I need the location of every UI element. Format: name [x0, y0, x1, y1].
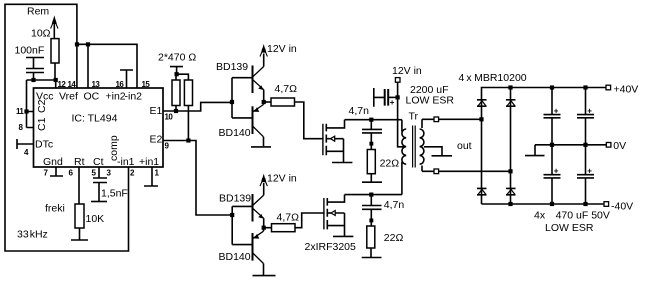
- svg-text:4,7n: 4,7n: [349, 105, 370, 117]
- svg-text:DTc: DTc: [35, 139, 53, 151]
- node Rem terminal arrow: [51, 15, 58, 38]
- wire Rt pin6: [78, 167, 80, 204]
- node Vcc pin junction: [54, 78, 58, 82]
- svg-text:out: out: [457, 140, 472, 152]
- capacitor 2200uF: [374, 88, 398, 107]
- svg-text:C1: C1: [36, 117, 48, 131]
- node 470 tie junction: [175, 72, 179, 76]
- svg-text:BD139: BD139: [216, 61, 248, 73]
- ground 100nF: [26, 58, 44, 69]
- wire 12V feed to center tap: [398, 82, 406, 147]
- svg-text:1,5nF: 1,5nF: [101, 188, 128, 200]
- svg-text:Rem: Rem: [27, 6, 49, 18]
- svg-text:2xIRF3205: 2xIRF3205: [305, 241, 357, 253]
- svg-text:E2: E2: [150, 134, 163, 146]
- diode D1 MBR10200: [477, 100, 487, 106]
- svg-text:100nF: 100nF: [15, 45, 45, 57]
- wire M1 drain rail: [345, 119, 402, 121]
- svg-text:+40V: +40V: [614, 84, 639, 96]
- capacitor 470uF B top: [577, 88, 594, 145]
- ground 1.5nF: [91, 201, 107, 203]
- transformer core: [413, 126, 416, 168]
- transistor Q1 BD139: [232, 54, 264, 103]
- wire Vref rail to OC and -in2: [77, 44, 137, 88]
- node diode2 top junction: [508, 85, 512, 89]
- svg-text:22Ω: 22Ω: [380, 158, 400, 170]
- transformer Tr primary: [402, 120, 406, 195]
- svg-text:12: 12: [58, 80, 67, 89]
- wire M2 drain rail: [345, 194, 402, 196]
- transformer Tr secondary: [420, 119, 424, 171]
- node cap B bottom junction: [583, 202, 587, 206]
- diode D4 MBR10200: [506, 188, 516, 204]
- wire driver1 out: [264, 101, 271, 103]
- node cap A top junction: [550, 85, 554, 89]
- svg-text:4,7Ω: 4,7Ω: [275, 83, 298, 95]
- ground 22R lower: [362, 248, 382, 258]
- svg-text:4,7n: 4,7n: [384, 199, 405, 211]
- transistor Q2 BD140: [232, 102, 264, 146]
- wire C1 C2 tie to Vcc: [27, 80, 34, 128]
- diode D3 MBR10200: [477, 188, 487, 204]
- node secondary bottom junction: [508, 169, 512, 173]
- terminal 0V square: [606, 143, 611, 148]
- svg-text:IC: TL494: IC: TL494: [72, 113, 118, 125]
- resistor 22R upper: [367, 150, 375, 174]
- node snubber1 tap: [369, 118, 373, 122]
- node pin11 junction: [24, 109, 28, 113]
- ground M2 source: [333, 235, 353, 237]
- wire driver2 out: [264, 227, 272, 229]
- resistor 22R lower: [367, 226, 375, 248]
- ground +in2: [120, 70, 133, 88]
- node cap A bottom junction: [550, 202, 554, 206]
- svg-text:Ct: Ct: [93, 156, 104, 168]
- svg-text:+in2: +in2: [106, 91, 126, 103]
- wire secondary center tap: [424, 147, 442, 156]
- capacitor 4.7n lower: [362, 195, 382, 226]
- node driver2 emitter junction: [262, 226, 266, 230]
- terminal 12V in square: [395, 78, 400, 83]
- resistor 4.7R lower: [272, 224, 296, 232]
- svg-text:4,7Ω: 4,7Ω: [277, 212, 300, 224]
- terminal secondary top square: [434, 117, 439, 122]
- svg-text:C2: C2: [36, 99, 48, 113]
- svg-text:Rt: Rt: [74, 156, 85, 168]
- node snubber2 tap: [369, 193, 373, 197]
- svg-text:22Ω: 22Ω: [384, 232, 404, 244]
- svg-text:16: 16: [116, 80, 125, 89]
- ground Gnd pin7: [50, 167, 63, 176]
- wire D1 anode leg: [481, 100, 483, 189]
- svg-text:11: 11: [16, 107, 24, 116]
- wire secondary top to bridge: [422, 118, 482, 120]
- svg-text:33kHz: 33kHz: [17, 229, 48, 241]
- ground 22R upper: [362, 174, 382, 183]
- node 2200uF junction: [396, 95, 400, 99]
- svg-text:10K: 10K: [86, 213, 105, 225]
- wire D2 cathode leg: [510, 88, 512, 100]
- terminal secondary bottom square: [434, 169, 439, 174]
- svg-text:freki: freki: [45, 203, 65, 215]
- svg-text:-40V: -40V: [611, 201, 633, 213]
- capacitor 1.5nF: [93, 178, 107, 202]
- ground +in1 pin1: [144, 167, 158, 186]
- capacitor 470uF A top: [544, 88, 561, 145]
- transistor Q4 BD140: [232, 228, 263, 276]
- wire 470A to E1: [175, 106, 177, 112]
- wire secondary bottom to bridge: [422, 170, 511, 172]
- wire 470 tops tie: [176, 74, 188, 80]
- node Vref junction: [75, 42, 79, 46]
- svg-text:14: 14: [68, 80, 77, 89]
- ground 10K: [71, 228, 88, 240]
- svg-text:4xMBR10200: 4xMBR10200: [459, 72, 527, 84]
- svg-text:13: 13: [92, 80, 101, 89]
- node driver1 emitter junction: [262, 100, 266, 104]
- resistor 10R: [51, 39, 59, 63]
- capacitor 470uF B bottom: [577, 145, 594, 204]
- node secondary top junction: [479, 117, 483, 121]
- wire +40V rail: [482, 88, 607, 100]
- terminal 470 supply bar: [170, 67, 183, 75]
- node cap A mid junction: [550, 143, 554, 147]
- svg-text:LOW ESR: LOW ESR: [406, 95, 455, 107]
- node OC junction: [86, 42, 90, 46]
- ground DTc pin4: [17, 139, 34, 149]
- svg-text:Gnd: Gnd: [43, 156, 63, 168]
- ground out center tap: [432, 155, 453, 157]
- svg-text:OC: OC: [84, 91, 100, 103]
- wire OC pin 13: [87, 44, 89, 88]
- svg-text:0V: 0V: [613, 140, 626, 152]
- ground 0V rail: [525, 145, 545, 156]
- svg-text:Tr: Tr: [409, 111, 419, 123]
- svg-text:10Ω: 10Ω: [31, 28, 51, 40]
- node driver1 base junction: [230, 100, 234, 104]
- capacitor 4.7n upper: [362, 120, 382, 150]
- node 100nF junction: [31, 78, 35, 82]
- svg-text:E1: E1: [150, 105, 163, 117]
- svg-text:BD140: BD140: [219, 127, 251, 139]
- svg-text:BD140: BD140: [219, 251, 251, 263]
- node cap B top junction: [583, 85, 587, 89]
- capacitor 100nF: [26, 69, 44, 81]
- diode D2 MBR10200: [506, 100, 516, 106]
- svg-text:+in1: +in1: [139, 156, 159, 168]
- svg-text:10: 10: [165, 113, 174, 122]
- wire 470B to E2: [187, 106, 189, 141]
- ground BD140 lower collector: [253, 275, 276, 277]
- resistor 470 B: [184, 80, 192, 106]
- terminal +40V square: [606, 85, 611, 90]
- node cap B mid junction: [583, 143, 587, 147]
- transistor Q3 BD139: [232, 183, 264, 228]
- wire -40V rail: [482, 203, 606, 205]
- ground M1 source: [332, 162, 352, 164]
- wire E2 pin9: [163, 141, 232, 216]
- svg-text:BD139: BD139: [219, 193, 251, 205]
- transistor M2 IRF3205 lower: [324, 195, 345, 237]
- node driver2 base junction: [230, 213, 234, 217]
- node 12V in arrow lower: [260, 174, 267, 187]
- node 12V in arrow upper: [260, 44, 267, 57]
- svg-text:-in2: -in2: [125, 91, 143, 103]
- capacitor 470uF A bottom: [544, 145, 561, 204]
- svg-text:2*470 Ω: 2*470 Ω: [158, 52, 196, 64]
- wire driver1 base bus: [231, 78, 233, 118]
- svg-text:12V in: 12V in: [267, 173, 297, 185]
- op-amp U1 TL494 body: [34, 88, 164, 167]
- node E1 resistor junction: [174, 109, 178, 113]
- svg-text:12V in: 12V in: [267, 43, 297, 55]
- resistor 4.7R upper: [271, 98, 295, 106]
- wire Ct pin5: [98, 167, 100, 178]
- node E2 resistor junction: [186, 138, 190, 142]
- node snubber1 mid: [369, 142, 373, 146]
- svg-text:LOW ESR: LOW ESR: [545, 222, 594, 234]
- node diode4 bottom junction: [508, 202, 512, 206]
- svg-text:Vref: Vref: [59, 91, 78, 103]
- svg-text:12V in: 12V in: [392, 65, 422, 77]
- svg-text:15: 15: [142, 80, 151, 89]
- wire gate lower: [295, 213, 325, 228]
- resistor 10K: [75, 204, 84, 228]
- wire gate upper: [295, 102, 324, 139]
- resistor 470 A: [172, 80, 180, 106]
- wire E1 pin10: [163, 102, 232, 111]
- svg-text:-in1: -in1: [117, 156, 135, 168]
- wire D2 anode leg: [510, 100, 512, 189]
- terminal -40V square: [604, 202, 609, 207]
- transistor M1 IRF3205 upper: [323, 120, 345, 163]
- wire 0V rail: [535, 144, 606, 146]
- wire driver2 base bus: [231, 206, 233, 244]
- wire Vcc rail: [27, 80, 56, 88]
- wire feedback loop box (Vref to -in1): [5, 4, 129, 251]
- ground BD140 collector: [251, 146, 271, 148]
- wire 10R to Vcc node: [54, 63, 56, 80]
- node snubber2 mid: [369, 219, 373, 223]
